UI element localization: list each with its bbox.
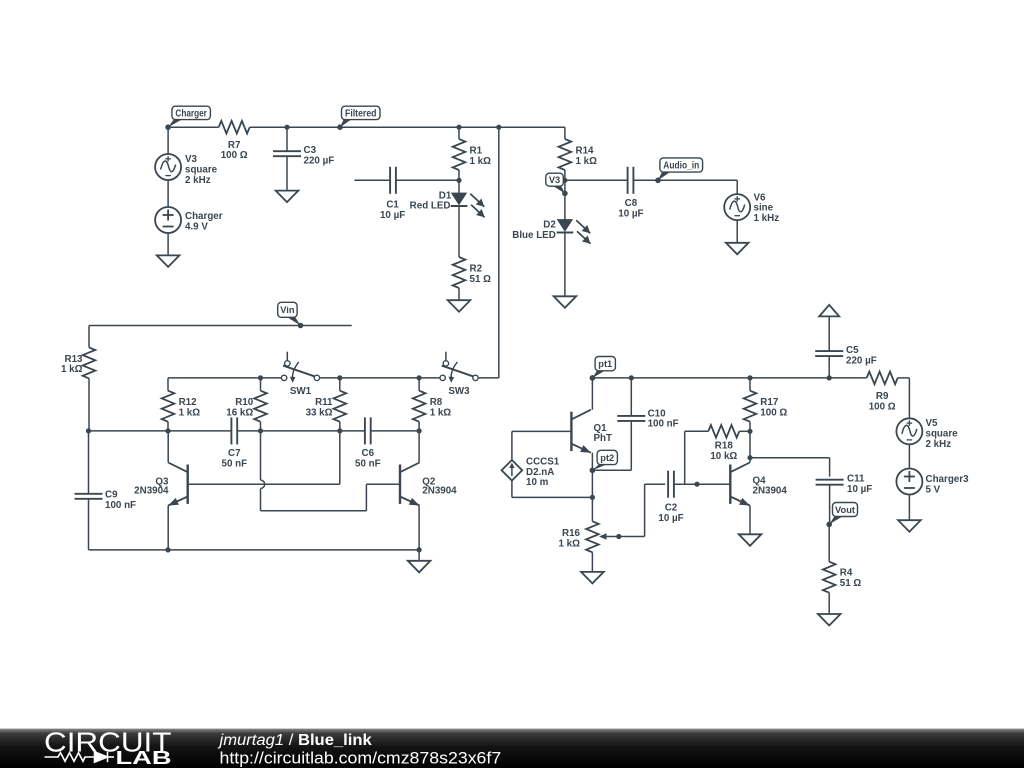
svg-text:1 kΩ: 1 kΩ [470, 156, 492, 167]
transistor Q4 2N3904 [729, 465, 731, 504]
wire C3 to ground [286, 156, 288, 190]
flag Filtered [340, 119, 353, 128]
svg-text:R10: R10 [235, 397, 254, 408]
source Charger3 5V [896, 469, 922, 495]
svg-text:pt1: pt1 [598, 359, 612, 369]
capacitor C9 [88, 431, 90, 494]
wire C8 to Audio_in [633, 179, 658, 181]
wire Q2 collector [418, 431, 420, 463]
svg-text:1 kΩ: 1 kΩ [559, 538, 581, 549]
node junction C1/R1/D1 [456, 178, 461, 183]
wire Charger3 to ground [908, 495, 910, 521]
wire R7 to C3 node [250, 126, 287, 128]
wire Audio_in to V6 [658, 179, 737, 181]
wire riser node to R14 [499, 126, 565, 128]
wire Vin net [89, 325, 352, 327]
wire R9 to V5 [898, 377, 910, 379]
svg-text:51 Ω: 51 Ω [840, 578, 862, 589]
wire Vout to R4 [828, 524, 830, 561]
svg-text:Charger: Charger [175, 108, 207, 119]
svg-text:1 kΩ: 1 kΩ [430, 408, 452, 419]
svg-text:V5: V5 [926, 418, 939, 429]
svg-text:V3: V3 [185, 154, 198, 165]
node rail/R13/C9 [86, 428, 91, 433]
svg-text:pt2: pt2 [600, 453, 614, 463]
wire SW3 to riser [478, 377, 498, 379]
wire D2 to ground [564, 233, 566, 296]
svg-text:Audio_in: Audio_in [663, 160, 699, 171]
svg-text:V3: V3 [549, 175, 560, 185]
wire SW1 to R11 [320, 377, 340, 379]
svg-text:Vout: Vout [835, 505, 855, 515]
resistor R2 [453, 257, 466, 288]
transistor Q3 2N3904 [186, 465, 188, 504]
svg-text:50 nF: 50 nF [222, 458, 248, 469]
diode D2 blue LED [558, 220, 573, 231]
svg-text:R2: R2 [470, 264, 483, 275]
wire R18 branch [684, 431, 686, 484]
svg-text:2N3904: 2N3904 [134, 486, 169, 497]
node C10 top [629, 375, 634, 380]
svg-text:10 m: 10 m [526, 477, 549, 488]
resistor R14 [564, 127, 566, 139]
diode D1 red LED [452, 193, 467, 204]
resistor R18 [708, 425, 739, 438]
wire SW bus R12 to SW1 [167, 378, 169, 391]
svg-text:SW3: SW3 [448, 386, 470, 397]
node R11 top [337, 375, 342, 380]
svg-text:SW1: SW1 [290, 386, 312, 397]
osc top rail left [89, 430, 232, 432]
svg-text:100 Ω: 100 Ω [760, 408, 787, 419]
svg-text:R17: R17 [760, 397, 779, 408]
svg-text:sine: sine [754, 203, 774, 214]
capacitor C6 [364, 417, 366, 444]
svg-text:10 µF: 10 µF [847, 484, 872, 495]
wire C3 node to Filtered [287, 126, 340, 128]
source CCCS1 [502, 460, 523, 481]
svg-text:Filtered: Filtered [345, 108, 377, 119]
svg-text:R9: R9 [876, 391, 889, 402]
wire C2 to Q4 base [674, 483, 730, 485]
wire R10 stub [260, 378, 262, 391]
resistor R11 [334, 391, 347, 422]
wire Q4 emitter to ground [749, 506, 751, 535]
logo resistor-diode glyph [45, 752, 115, 762]
resistor R9 [867, 372, 898, 385]
resistor R1 [458, 127, 460, 139]
svg-text:100 Ω: 100 Ω [869, 401, 896, 412]
transistor Q1 PhT [570, 412, 572, 451]
svg-text:square: square [185, 164, 218, 175]
wire R17 to Q4 collector [749, 431, 751, 462]
capacitor C5 [815, 350, 843, 352]
capacitor C3 [273, 150, 301, 152]
wire wiper to C2 [619, 536, 645, 538]
capacitor C10 [617, 415, 645, 417]
flag Vin [286, 316, 301, 325]
resistor R10 [254, 391, 267, 422]
node R10 top [258, 375, 263, 380]
wire Q3 collector [167, 431, 169, 463]
wire CCCS1 bottom [511, 481, 513, 498]
wire Q3 base [188, 483, 340, 485]
wire C1 left stub [354, 179, 389, 181]
svg-text:Charger: Charger [185, 211, 223, 222]
osc rail mid [237, 430, 365, 432]
resistor R7 [219, 121, 250, 134]
power flag above C5 [819, 305, 839, 317]
wire C11 to Vout [829, 485, 831, 525]
ground below R16 [581, 572, 604, 584]
right top rail [592, 377, 829, 379]
node C2/R18/Q4 [694, 482, 699, 487]
node bottom Q3 [165, 547, 170, 552]
node wiper [616, 534, 621, 539]
ground below C3 [276, 191, 299, 203]
transistor Q2 2N3904 [399, 465, 401, 504]
capacitor C8 [627, 167, 629, 194]
svg-text:50 nF: 50 nF [355, 458, 381, 469]
svg-text:V6: V6 [754, 192, 767, 203]
switch SW1 [286, 352, 288, 361]
wire rail to R9 [829, 377, 867, 379]
wire D1 to R2 [458, 207, 460, 257]
wire pt2 to R16 [591, 470, 593, 521]
wire V3 to Charger source [167, 180, 169, 207]
svg-text:10 kΩ: 10 kΩ [710, 451, 737, 462]
svg-text:R14: R14 [576, 145, 595, 156]
svg-text:R13: R13 [65, 354, 84, 365]
node R17 top [747, 375, 752, 380]
flag Audio_in [658, 171, 671, 180]
flag Vout [829, 516, 844, 525]
svg-text:Red LED: Red LED [410, 201, 451, 212]
svg-text:2 kHz: 2 kHz [926, 439, 952, 450]
wire riser to SW3 [498, 127, 500, 378]
resistor R17 [749, 378, 751, 391]
resistor R8 [413, 391, 426, 422]
wire Q1 emitter down [591, 453, 593, 471]
svg-text:10 µF: 10 µF [618, 208, 643, 219]
ground below R4 [818, 614, 841, 626]
flag pt2 [592, 464, 608, 471]
svg-text:1 kΩ: 1 kΩ [179, 408, 201, 419]
wire R11 down to Q3 base [339, 431, 341, 484]
capacitor C2 [667, 471, 669, 498]
capacitor C1 [389, 167, 391, 194]
source V3 square [167, 127, 169, 154]
resistor R13 [88, 326, 90, 348]
wire R8 stub [418, 378, 420, 391]
wire R11 to R8 [340, 377, 419, 379]
wire Charger to ground [167, 233, 169, 255]
wire C10 to pt2 junction [630, 421, 632, 470]
svg-text:4.9 V: 4.9 V [185, 222, 208, 233]
node R8 top [417, 375, 422, 380]
wire V5 to Charger3 [908, 444, 910, 468]
svg-text:http://circuitlab.com/cmz878s2: http://circuitlab.com/cmz878s23x6f7 [220, 749, 502, 768]
ground at bottom rail [418, 550, 420, 561]
ground below R2 [448, 300, 471, 312]
potentiometer R16 [586, 521, 599, 552]
svg-text:R1: R1 [470, 145, 483, 156]
svg-text:100 nF: 100 nF [648, 419, 679, 430]
node Q4 collector/C11 [747, 455, 752, 460]
capacitor C7 [230, 417, 232, 444]
node junction at C3 [284, 125, 289, 130]
node R17/R18 [747, 429, 752, 434]
svg-text:16 kΩ: 16 kΩ [226, 408, 253, 419]
wire C5 to rail [828, 356, 830, 378]
svg-text:1 kΩ: 1 kΩ [61, 364, 83, 375]
flag pt1 [592, 370, 606, 378]
wire C3 stub [286, 127, 288, 151]
wire C10 stub [630, 378, 632, 416]
svg-text:1 kHz: 1 kHz [754, 213, 780, 224]
svg-text:Vin: Vin [280, 305, 295, 315]
source Charger 4.9V [155, 207, 181, 233]
source V6 sine [724, 194, 750, 220]
svg-text:100 Ω: 100 Ω [221, 150, 248, 161]
wire CCCS1 top to Q1 base [511, 431, 513, 460]
wire R14 node to C8 [565, 179, 628, 181]
switch SW3 [445, 352, 447, 361]
resistor R12 [162, 391, 175, 422]
osc bottom rail [89, 549, 420, 551]
svg-text:square: square [926, 429, 959, 440]
flag V3 net [552, 185, 565, 193]
svg-text:2N3904: 2N3904 [422, 486, 457, 497]
svg-text:LAB: LAB [116, 748, 172, 768]
wire R16 to ground [591, 552, 593, 572]
ground below D2 [554, 296, 577, 308]
wire C1 to D1 node [396, 179, 459, 181]
wire R8 to SW3 [419, 377, 440, 379]
source V5 square [896, 418, 922, 444]
svg-text:R12: R12 [179, 397, 198, 408]
wire V6 to ground [736, 220, 738, 243]
node C5 bottom [827, 375, 832, 380]
svg-text:PhT: PhT [594, 433, 613, 444]
svg-text:2N3904: 2N3904 [753, 486, 788, 497]
wire R18 to R17 node [739, 430, 750, 432]
svg-text:R8: R8 [430, 397, 443, 408]
wire: Charger net top bus [168, 126, 219, 128]
flag Charger [168, 119, 183, 128]
ground below Charger [157, 255, 180, 267]
wire Q2 base feed [261, 510, 367, 512]
svg-text:2 kHz: 2 kHz [185, 175, 211, 186]
svg-text:10 µF: 10 µF [380, 210, 405, 221]
node rail R8 [417, 428, 422, 433]
ground below Charger3 [898, 520, 921, 532]
wire R10 down with hop [260, 431, 262, 480]
ground below Q4 [739, 534, 762, 546]
node rail R11 [337, 428, 342, 433]
svg-text:5 V: 5 V [926, 484, 941, 495]
node pt2 junction [590, 468, 595, 473]
svg-text:220 µF: 220 µF [304, 155, 335, 166]
svg-text:1 kΩ: 1 kΩ [576, 156, 598, 167]
svg-text:R11: R11 [315, 397, 333, 408]
osc rail right [371, 430, 419, 432]
footer bar [0, 729, 1024, 768]
svg-text:33 kΩ: 33 kΩ [306, 408, 333, 419]
wire Filtered to R1 node [340, 126, 459, 128]
wire Q4 collector to C11 [750, 457, 830, 459]
node rail R10 [258, 428, 263, 433]
svg-text:220 µF: 220 µF [846, 355, 877, 366]
resistor R4 [823, 562, 836, 593]
wire R1 node to SW3 riser [459, 126, 499, 128]
svg-text:jmurtag1 / Blue_link: jmurtag1 / Blue_link [217, 732, 372, 749]
svg-text:Blue LED: Blue LED [512, 230, 556, 241]
wire to D1 [458, 180, 460, 193]
svg-text:10 µF: 10 µF [658, 513, 683, 524]
wire R11 stub [339, 378, 341, 391]
svg-text:100 nF: 100 nF [105, 500, 136, 511]
svg-text:R18: R18 [715, 440, 734, 451]
node junction at R1 [456, 125, 461, 130]
svg-text:51 Ω: 51 Ω [470, 274, 492, 285]
node bottom Q2 [417, 547, 422, 552]
wire R14 node to D2 [564, 180, 566, 219]
node pt1/Q1 collector [590, 375, 595, 380]
ground below V6 [726, 243, 749, 255]
wire Q3 emitter down [167, 506, 169, 550]
node junction at SW3 riser [496, 125, 501, 130]
wire Q1 collector [591, 378, 593, 410]
node CCCS1/R16 [590, 495, 595, 500]
wire Q2 emitter down [418, 506, 420, 550]
node rail R12 [165, 428, 170, 433]
node junction R14/D2/C8 [562, 178, 567, 183]
capacitor C11 [816, 479, 844, 481]
